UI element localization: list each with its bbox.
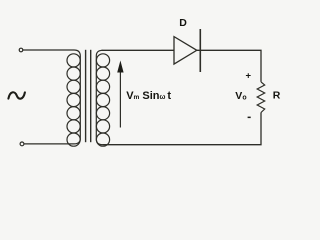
diode D	[174, 29, 200, 72]
wire (resistor bottom to bottom rail)	[103, 113, 262, 145]
transformer T1 secondary winding	[96, 50, 109, 146]
label D	[179, 17, 187, 29]
resistor R	[257, 82, 265, 113]
svg-text:D: D	[179, 17, 187, 29]
wire (bottom terminal to transformer primary)	[24, 143, 74, 145]
wire (diode cathode to top-right corner)	[197, 50, 261, 82]
node Vo	[235, 90, 246, 102]
label R	[273, 90, 281, 102]
svg-text:R: R	[273, 90, 281, 102]
transformer T1 core	[86, 50, 91, 142]
minus sign (output polarity)	[248, 117, 251, 119]
terminal (top input)	[19, 48, 23, 52]
transformer T1 primary winding	[67, 50, 80, 146]
svg-text:+: +	[246, 71, 252, 82]
AC source	[8, 92, 25, 98]
wire (secondary top to diode anode)	[102, 49, 175, 51]
arrow (secondary voltage reference)	[117, 61, 123, 128]
wire (top terminal to transformer primary)	[23, 49, 74, 51]
plus sign (output polarity)	[246, 71, 252, 82]
terminal (bottom input)	[20, 142, 24, 146]
value label Vm Sin wt	[126, 90, 171, 102]
